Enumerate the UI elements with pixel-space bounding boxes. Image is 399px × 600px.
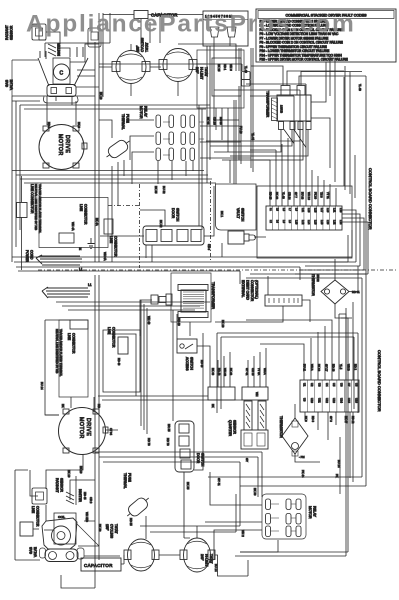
wire lower gas valve feeds <box>15 470 120 588</box>
svg-text:RADIANT: RADIANT <box>5 25 9 40</box>
vault switch S3 <box>216 184 257 244</box>
wire debit connector leads <box>140 276 310 336</box>
svg-text:U16: U16 <box>354 398 358 403</box>
svg-text:SENSOR: SENSOR <box>60 478 64 493</box>
wire thermal fuse leads upper <box>99 120 124 262</box>
wire labels misc <box>40 66 362 572</box>
wire horizontal bus mid upper <box>12 96 216 262</box>
svg-text:SENSOR: SENSOR <box>10 25 14 40</box>
thermal fuse TF1 <box>103 114 133 162</box>
svg-text:CONNECTOR: CONNECTOR <box>114 236 118 257</box>
cycling thermostat TH1 <box>112 37 150 83</box>
svg-text:WH 40: WH 40 <box>147 316 151 325</box>
svg-text:F25 - UPPER DRYER MOTOR CONTRO: F25 - UPPER DRYER MOTOR CONTROL CIRCUIT … <box>260 58 348 62</box>
wire lower bus to connector bars <box>98 348 266 400</box>
svg-text:CONTROL BOARD CONNECTOR: CONTROL BOARD CONNECTOR <box>368 168 373 230</box>
svg-text:U8: U8 <box>354 383 358 387</box>
external debit card connector CN2 <box>241 280 302 306</box>
svg-text:SWITCH: SWITCH <box>190 357 194 371</box>
line connector LC3 <box>104 219 118 257</box>
control board connector CN1 <box>257 186 352 258</box>
svg-text:THERMAL: THERMAL <box>123 473 127 489</box>
svg-text:BK: BK <box>61 404 65 408</box>
svg-text:OR 34: OR 34 <box>288 192 292 200</box>
fault code table <box>256 9 396 62</box>
svg-text:GY 41: GY 41 <box>245 368 249 376</box>
svg-text:YL 44: YL 44 <box>251 133 255 140</box>
wire cabinet dash vertical left <box>108 181 211 268</box>
svg-text:WH 9: WH 9 <box>229 64 233 71</box>
svg-text:GAS: GAS <box>5 79 9 87</box>
svg-text:BK 52: BK 52 <box>159 220 163 228</box>
svg-text:DOOR: DOOR <box>196 453 200 464</box>
svg-text:GAS: GAS <box>29 546 33 554</box>
wire transformer bottom fan <box>206 118 330 168</box>
radiant sensor RS2 <box>32 478 64 504</box>
svg-text:BK 40: BK 40 <box>229 368 233 376</box>
wire upper connector risers <box>270 84 336 206</box>
cycling thermostat TH3 <box>105 524 159 571</box>
svg-text:RD 31: RD 31 <box>352 290 360 294</box>
wire inline connector to transformer <box>236 48 253 172</box>
svg-text:L16: L16 <box>314 220 318 225</box>
svg-text:LINE: LINE <box>31 506 35 513</box>
svg-text:WH 2: WH 2 <box>241 530 245 537</box>
svg-text:RD 8: RD 8 <box>311 416 315 422</box>
svg-text:240°: 240° <box>200 554 204 561</box>
svg-text:U9: U9 <box>303 398 307 402</box>
svg-text:BR 55: BR 55 <box>167 424 171 432</box>
svg-text:OR 36: OR 36 <box>213 117 217 125</box>
svg-text:(OPTIONAL): (OPTIONAL) <box>255 280 259 299</box>
svg-text:BK 56: BK 56 <box>253 488 257 496</box>
svg-text:L15: L15 <box>314 208 318 213</box>
svg-text:L11: L11 <box>301 208 305 213</box>
svg-text:BK 13: BK 13 <box>99 92 103 100</box>
gas valve lower GV2 <box>29 513 99 562</box>
line connector LC2 <box>59 204 88 251</box>
svg-text:PU 16: PU 16 <box>239 126 243 134</box>
capacitor C1 <box>134 11 178 19</box>
svg-text:RADIANT: RADIANT <box>55 478 59 492</box>
svg-text:L1: L1 <box>79 268 83 272</box>
gas valve upper GV1 <box>5 47 99 103</box>
svg-text:BK 8: BK 8 <box>77 122 81 128</box>
svg-text:DOOR: DOOR <box>171 208 175 219</box>
svg-text:DRIVE: DRIVE <box>64 135 70 153</box>
relay box K3 <box>88 28 101 47</box>
svg-text:THERMISTOR: THERMISTOR <box>311 274 315 296</box>
svg-text:GY: GY <box>245 458 249 462</box>
svg-text:BK: BK <box>211 404 215 408</box>
svg-text:LINE: LINE <box>67 333 71 340</box>
svg-text:CONNECTOR: CONNECTOR <box>112 327 116 348</box>
wire thermistor taps <box>295 259 358 462</box>
svg-text:TRACER AND/OR PLATED TERMINAL: TRACER AND/OR PLATED TERMINAL <box>38 184 42 234</box>
svg-text:ACCESS: ACCESS <box>185 357 189 371</box>
svg-text:RD 5: RD 5 <box>47 122 51 129</box>
svg-text:WH 4A: WH 4A <box>103 252 107 261</box>
svg-text:SENSOR: SENSOR <box>233 420 237 435</box>
svg-text:VALVE: VALVE <box>10 79 14 90</box>
drive motor M2 <box>59 408 114 455</box>
line connector LC1 <box>17 176 35 270</box>
svg-text:FUSE: FUSE <box>126 114 130 124</box>
svg-text:L13: L13 <box>307 208 311 213</box>
svg-text:RD 10: RD 10 <box>332 364 336 372</box>
svg-text:BU 14: BU 14 <box>214 564 218 572</box>
svg-text:CONNECTOR: CONNECTOR <box>72 333 76 354</box>
svg-text:CONNECTOR: CONNECTOR <box>250 280 254 302</box>
svg-text:RD 40: RD 40 <box>117 358 121 366</box>
wire cabinet separator dash line <box>38 269 397 271</box>
svg-text:RD 35: RD 35 <box>219 117 223 125</box>
inline fuse F2 <box>151 294 172 305</box>
svg-text:GY 9: GY 9 <box>329 416 333 422</box>
coin connector J2 <box>197 50 244 108</box>
line connector enclosure box lower <box>59 320 88 397</box>
svg-text:LINE: LINE <box>79 204 83 211</box>
line connector LC4 <box>107 327 128 366</box>
svg-text:L18: L18 <box>320 220 324 225</box>
svg-text:MOTOR: MOTOR <box>57 134 63 156</box>
svg-text:CORD: CORD <box>30 250 34 260</box>
power cord P1 <box>25 250 83 272</box>
hi-limit thermostat TH4 <box>180 538 215 572</box>
svg-text:CT 34: CT 34 <box>109 428 113 436</box>
igniter upper <box>48 42 61 56</box>
svg-text:BK 55: BK 55 <box>186 482 190 490</box>
svg-text:WH 10: WH 10 <box>307 192 311 200</box>
radiant sensor RS1 <box>5 24 46 40</box>
svg-text:155°: 155° <box>136 45 140 52</box>
svg-text:TSTAT: TSTAT <box>209 554 213 564</box>
svg-text:163UB: 163UB <box>280 105 284 113</box>
wire motor relay lower links <box>205 437 340 560</box>
access switch S4 <box>177 339 204 371</box>
svg-text:BU 14: BU 14 <box>337 460 341 468</box>
svg-text:U1: U1 <box>303 383 307 387</box>
svg-text:L1: L1 <box>88 283 92 287</box>
svg-text:L20: L20 <box>326 220 330 225</box>
svg-text:YL 40: YL 40 <box>281 192 285 199</box>
svg-text:WH A: WH A <box>263 368 267 375</box>
svg-text:LINE: LINE <box>107 327 111 334</box>
svg-text:WH B: WH B <box>346 364 350 371</box>
svg-text:BK 56: BK 56 <box>98 524 102 532</box>
svg-text:CONTROL BOARD CONNECTOR: CONTROL BOARD CONNECTOR <box>377 350 382 412</box>
wire lower motor leads <box>45 397 118 470</box>
wire lower feed bundle <box>141 300 210 434</box>
connector bar CB1 <box>208 368 235 400</box>
svg-text:FUSE: FUSE <box>128 473 132 483</box>
transformer T2 <box>171 273 215 322</box>
svg-text:RD 40: RD 40 <box>177 318 181 326</box>
svg-text:BK 25: BK 25 <box>206 117 210 125</box>
svg-text:U11: U11 <box>317 398 321 403</box>
svg-text:L17: L17 <box>320 208 324 213</box>
svg-text:U12: U12 <box>325 398 329 403</box>
svg-text:BK 55: BK 55 <box>154 186 158 194</box>
svg-text:BK 43: BK 43 <box>275 192 279 200</box>
svg-text:OR 43: OR 43 <box>251 368 255 376</box>
svg-text:TSTAT: TSTAT <box>204 67 208 77</box>
svg-text:SWITCH: SWITCH <box>201 453 205 467</box>
svg-text:RD 2: RD 2 <box>354 364 358 370</box>
motor relay K2 <box>262 494 317 539</box>
svg-text:WH 4A: WH 4A <box>71 222 75 231</box>
svg-text:U7: U7 <box>347 383 351 387</box>
wire bottom tstat chain <box>121 494 248 576</box>
svg-text:BK 13: BK 13 <box>221 320 225 328</box>
control board connector label lower <box>377 350 382 412</box>
svg-text:BK 19: BK 19 <box>79 466 83 474</box>
wire left vertical bus upper <box>95 13 103 262</box>
svg-text:YL 5: YL 5 <box>339 364 343 370</box>
transformer T1 <box>266 86 312 130</box>
svg-text:MOTOR: MOTOR <box>139 106 143 119</box>
line connector LC5 <box>67 320 88 354</box>
ground chassis G1 <box>88 238 95 249</box>
svg-text:RD 25: RD 25 <box>269 192 273 200</box>
svg-text:DEBIT CARD: DEBIT CARD <box>246 280 250 301</box>
svg-text:U15: U15 <box>347 398 351 403</box>
svg-text:NEUTRAL LINE IDENTIFIED BY RIB: NEUTRAL LINE IDENTIFIED BY RIB <box>34 184 38 230</box>
svg-text:VT 6A: VT 6A <box>257 368 261 375</box>
svg-text:IGNITER: IGNITER <box>57 42 61 56</box>
svg-text:BU 11: BU 11 <box>303 364 307 372</box>
svg-text:L14: L14 <box>307 220 311 225</box>
power cord P2 <box>42 283 92 298</box>
svg-text:- PM: - PM <box>299 455 304 459</box>
wire upper connector right fan <box>295 210 368 274</box>
svg-text:DRIVE: DRIVE <box>85 418 91 436</box>
svg-text:L12: L12 <box>301 220 305 225</box>
svg-text:TRANSFORMER: TRANSFORMER <box>211 282 215 310</box>
coin connector J1 <box>203 11 248 46</box>
wire lower left long bus <box>45 275 358 588</box>
wire center vertical pair <box>99 46 239 230</box>
svg-text:CONNECTOR: CONNECTOR <box>36 506 40 527</box>
svg-text:RD 55: RD 55 <box>129 518 133 526</box>
svg-text:BU 14: BU 14 <box>40 382 44 390</box>
svg-text:VT 21: VT 21 <box>326 192 330 199</box>
svg-text:BK 6: BK 6 <box>304 416 308 422</box>
svg-text:TSTAT: TSTAT <box>114 524 118 534</box>
wire lower mid horizontals <box>95 452 262 497</box>
wire door switch feeds upper <box>100 186 214 262</box>
svg-text:CONNECTOR: CONNECTOR <box>84 204 88 225</box>
neutral note lower <box>55 329 63 377</box>
quarter sensor QS1 <box>228 401 268 449</box>
svg-text:WH A: WH A <box>310 364 314 371</box>
svg-text:L10: L10 <box>295 220 299 225</box>
wire upper connector riser tops <box>214 84 306 160</box>
svg-text:RD 12: RD 12 <box>351 416 355 424</box>
svg-text:155°: 155° <box>105 524 109 531</box>
svg-text:HR 32: HR 32 <box>316 274 320 282</box>
svg-text:OR 3: OR 3 <box>89 497 93 504</box>
svg-text:WH: WH <box>255 392 259 397</box>
svg-text:POWER: POWER <box>25 250 29 263</box>
svg-text:LINE: LINE <box>109 236 113 243</box>
svg-text:L19: L19 <box>326 208 330 213</box>
svg-text:TN 6: TN 6 <box>320 192 324 198</box>
svg-text:RELAY: RELAY <box>144 106 148 118</box>
svg-text:THERMAL: THERMAL <box>121 114 125 130</box>
svg-text:MOTOR: MOTOR <box>308 506 312 519</box>
door switch S5 <box>166 421 205 538</box>
svg-text:U13: U13 <box>332 398 336 403</box>
wire igniter leads <box>46 470 95 505</box>
svg-text:RD 40: RD 40 <box>217 368 221 376</box>
inline connector F1 <box>242 72 251 87</box>
wire relay to buses <box>128 44 251 184</box>
svg-text:BU 33: BU 33 <box>301 192 305 200</box>
svg-text:U4: U4 <box>325 383 329 387</box>
svg-text:WH 55: WH 55 <box>85 512 89 521</box>
hi-limit thermostat TH2 <box>159 49 208 82</box>
wire gas valve to sensors <box>39 24 99 105</box>
svg-text:GY 7: GY 7 <box>294 192 298 198</box>
svg-text:VAULT: VAULT <box>236 208 240 218</box>
thermal fuse TF2 <box>123 473 153 521</box>
svg-text:GY 41: GY 41 <box>217 478 221 486</box>
line connector enclosure box upper <box>39 198 108 248</box>
svg-text:RD 78: RD 78 <box>147 438 151 446</box>
svg-text:TSTAT: TSTAT <box>145 42 149 52</box>
svg-text:C: C <box>60 71 64 77</box>
svg-text:TRANSFORMER: TRANSFORMER <box>266 91 270 118</box>
svg-text:BK 4A: BK 4A <box>95 218 99 226</box>
svg-text:RELAY: RELAY <box>313 506 317 518</box>
svg-text:L24: L24 <box>339 220 343 225</box>
control board connector label upper <box>368 168 373 230</box>
svg-text:L22: L22 <box>333 220 337 225</box>
svg-text:U3: U3 <box>317 383 321 387</box>
svg-text:COIL: COIL <box>58 515 65 519</box>
svg-text:PK: PK <box>335 474 339 478</box>
svg-text:HI-LIMIT: HI-LIMIT <box>200 67 204 79</box>
svg-text:U10: U10 <box>310 398 314 403</box>
svg-text:HG 45: HG 45 <box>83 492 87 500</box>
svg-text:PK 44: PK 44 <box>301 470 305 478</box>
control board connector CN3 <box>300 364 359 424</box>
svg-text:GY 17: GY 17 <box>324 364 328 372</box>
wire vault to connector <box>222 160 266 257</box>
svg-text:HI-LIMIT: HI-LIMIT <box>205 554 209 566</box>
svg-text:RD 78: RD 78 <box>166 438 170 446</box>
svg-text:EXTERNAL: EXTERNAL <box>241 280 245 298</box>
svg-text:QUARTER: QUARTER <box>228 420 232 437</box>
svg-text:NEUTRAL LINE IDENTIFIED BY RIB: NEUTRAL LINE IDENTIFIED BY RIB <box>55 329 59 374</box>
wire L bus horizontals <box>12 230 352 284</box>
svg-text:THERMISTOR: THERMISTOR <box>279 416 283 438</box>
svg-text:U6: U6 <box>340 383 344 387</box>
motor relay K1 <box>139 106 204 161</box>
svg-text:BK 13: BK 13 <box>317 364 321 372</box>
igniter lower <box>66 489 87 504</box>
svg-text:CYCLING: CYCLING <box>110 524 114 539</box>
svg-text:240°: 240° <box>195 67 199 74</box>
svg-text:SWITCH: SWITCH <box>241 208 245 222</box>
svg-text:VALVE: VALVE <box>34 546 38 557</box>
wire lower connector risers <box>246 302 353 482</box>
svg-text:BK 43: BK 43 <box>211 368 215 376</box>
svg-text:CB 3: CB 3 <box>207 244 211 250</box>
svg-text:L21: L21 <box>333 208 337 213</box>
svg-text:MOTOR: MOTOR <box>78 417 84 439</box>
svg-text:RD 1: RD 1 <box>223 64 227 71</box>
connector bar CB2 <box>242 368 268 400</box>
svg-text:AppliancePartsPros.com: AppliancePartsPros.com <box>26 11 356 38</box>
svg-text:SWITCH: SWITCH <box>176 208 180 222</box>
wire top bus capacitor to coin box <box>45 13 203 57</box>
door switch S2 <box>143 208 204 245</box>
svg-text:RD: RD <box>97 404 101 408</box>
wire transformer top feeds <box>251 62 366 102</box>
svg-text:WH 43: WH 43 <box>223 368 227 376</box>
svg-text:PK 39: PK 39 <box>313 192 317 200</box>
svg-text:BK 47: BK 47 <box>344 416 348 424</box>
wire right vertical bundle upper <box>330 54 366 274</box>
svg-text:BU 52: BU 52 <box>162 186 166 194</box>
svg-text:U2: U2 <box>310 383 314 387</box>
wire lower right loop <box>208 274 366 556</box>
wire thermostat link <box>99 13 242 96</box>
svg-text:TRACER AND/OR PLATED TERMINAL: TRACER AND/OR PLATED TERMINAL <box>59 329 63 377</box>
drive motor M1 <box>39 125 87 170</box>
neutral note text <box>34 184 42 234</box>
svg-text:TL 40: TL 40 <box>244 66 248 73</box>
svg-text:IGNITER: IGNITER <box>78 489 82 503</box>
svg-text:BK 1: BK 1 <box>220 211 224 218</box>
svg-text:BK 25: BK 25 <box>217 64 221 72</box>
svg-text:U14: U14 <box>340 398 344 403</box>
svg-text:TL 40: TL 40 <box>358 84 362 91</box>
svg-text:CYCLING: CYCLING <box>141 37 145 52</box>
svg-text:LINE CONNECTOR: LINE CONNECTOR <box>30 184 34 214</box>
line connector LC6 <box>20 506 40 536</box>
svg-text:BK 19: BK 19 <box>67 470 71 478</box>
svg-text:U5: U5 <box>332 383 336 387</box>
thermistor RT2 <box>279 416 308 459</box>
svg-text:RD 40: RD 40 <box>200 360 204 368</box>
capacitor C2 <box>81 558 121 571</box>
thermistor RT1 <box>311 274 360 304</box>
svg-text:CAPACITOR: CAPACITOR <box>84 563 113 568</box>
svg-text:L23: L23 <box>339 208 343 213</box>
